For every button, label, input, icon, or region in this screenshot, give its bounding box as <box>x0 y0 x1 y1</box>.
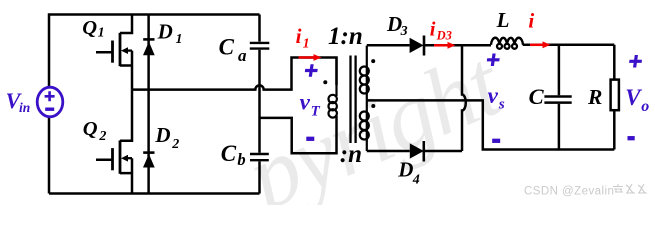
svg-text:a: a <box>238 46 247 65</box>
capacitor Cb <box>250 154 269 160</box>
minus vT <box>306 137 314 141</box>
transistor Q2 (MOSFET symbol) <box>96 140 132 173</box>
svg-text:in: in <box>19 100 30 115</box>
wire: Q1 source <box>120 51 132 90</box>
svg-text:i: i <box>296 24 302 48</box>
svg-text:4: 4 <box>412 172 420 187</box>
svg-text:D: D <box>397 158 413 182</box>
svg-text:v: v <box>488 83 499 108</box>
voltage source Vin <box>37 87 63 117</box>
diode D2 <box>143 151 154 154</box>
diode D1 <box>143 38 154 41</box>
current arrow i1 <box>299 54 322 61</box>
current arrow i <box>530 41 551 48</box>
wire: D1 branch <box>147 15 150 90</box>
svg-text:2: 2 <box>98 129 106 144</box>
wire: capacitor-divider branch <box>258 15 261 42</box>
svg-text:1: 1 <box>98 26 105 41</box>
transistor Q1 (MOSFET symbol) <box>96 33 132 66</box>
current arrow iD3 <box>434 42 456 49</box>
svg-text:V: V <box>625 85 642 110</box>
svg-text:o: o <box>641 98 649 115</box>
svg-text:s: s <box>498 96 505 112</box>
wire: D3 to junction and inductor <box>424 44 491 47</box>
svg-text:D: D <box>157 19 173 43</box>
wire: D2 branch <box>147 90 150 194</box>
polarity dot secondary lower <box>371 104 375 108</box>
svg-text:b: b <box>237 150 245 169</box>
capacitor Ca <box>250 43 269 49</box>
svg-text:v: v <box>300 90 311 115</box>
svg-text:D3: D3 <box>436 29 452 43</box>
svg-text:CSDN @Zevalin: CSDN @Zevalin <box>524 186 614 198</box>
wire: inductor to R <box>523 44 615 47</box>
svg-text:C: C <box>219 35 235 60</box>
polarity dot secondary upper <box>371 59 375 63</box>
minus Vo <box>628 136 635 140</box>
svg-text:2: 2 <box>171 137 179 152</box>
label vT <box>300 83 650 120</box>
svg-text:C: C <box>221 141 237 166</box>
svg-text:R: R <box>587 85 602 109</box>
minus vs <box>492 139 500 143</box>
wire: Q2 source <box>120 158 132 193</box>
wire: Q2 drain <box>120 90 132 141</box>
svg-text:i: i <box>528 8 534 32</box>
transformer T1 core <box>351 56 356 144</box>
plus Vo <box>628 55 642 68</box>
wire: middle rail with hop over capacitor branch <box>132 58 337 90</box>
svg-text:T: T <box>311 104 321 120</box>
svg-text:i: i <box>430 19 436 41</box>
label Vin <box>6 88 31 115</box>
wire: Q1 drain <box>120 15 132 34</box>
diode D3 <box>410 38 424 53</box>
svg-text:Q: Q <box>82 17 97 39</box>
transformer T1 secondary winding upper <box>360 46 369 101</box>
wire: input bottom rail <box>49 192 260 195</box>
svg-text:3: 3 <box>400 24 408 39</box>
svg-text:D: D <box>154 123 170 147</box>
plus vs <box>486 54 500 67</box>
svg-text:1: 1 <box>176 32 183 47</box>
svg-text:1:n: 1:n <box>328 23 363 50</box>
svg-text:C: C <box>529 84 545 109</box>
label i1 red <box>296 8 535 51</box>
capacitor C <box>544 97 571 103</box>
inductor L <box>491 38 523 45</box>
wire: input loop top rail <box>49 15 260 194</box>
wire: D4 bottom <box>367 150 410 153</box>
wire: diode cathode bus (vertical, hops over center-tap wire) <box>462 45 466 151</box>
wire: primary bottom zigzag to capacitor midpoint <box>260 116 337 153</box>
wire: R branch <box>613 45 616 150</box>
svg-text:Q: Q <box>83 118 98 140</box>
transformer T1 secondary winding lower <box>360 100 369 151</box>
svg-text:1: 1 <box>303 37 310 52</box>
wire: output C branch <box>558 45 561 150</box>
wire: center tap to output bottom rail <box>367 100 615 149</box>
plus vT <box>304 64 318 77</box>
polarity dot primary <box>323 80 327 84</box>
resistor R <box>611 80 619 111</box>
transformer T1 primary winding <box>329 58 337 118</box>
diode D4 <box>410 143 424 158</box>
wire: secondary top to D3 <box>367 44 410 47</box>
svg-text:L: L <box>496 8 510 32</box>
svg-text::n: :n <box>340 141 362 168</box>
